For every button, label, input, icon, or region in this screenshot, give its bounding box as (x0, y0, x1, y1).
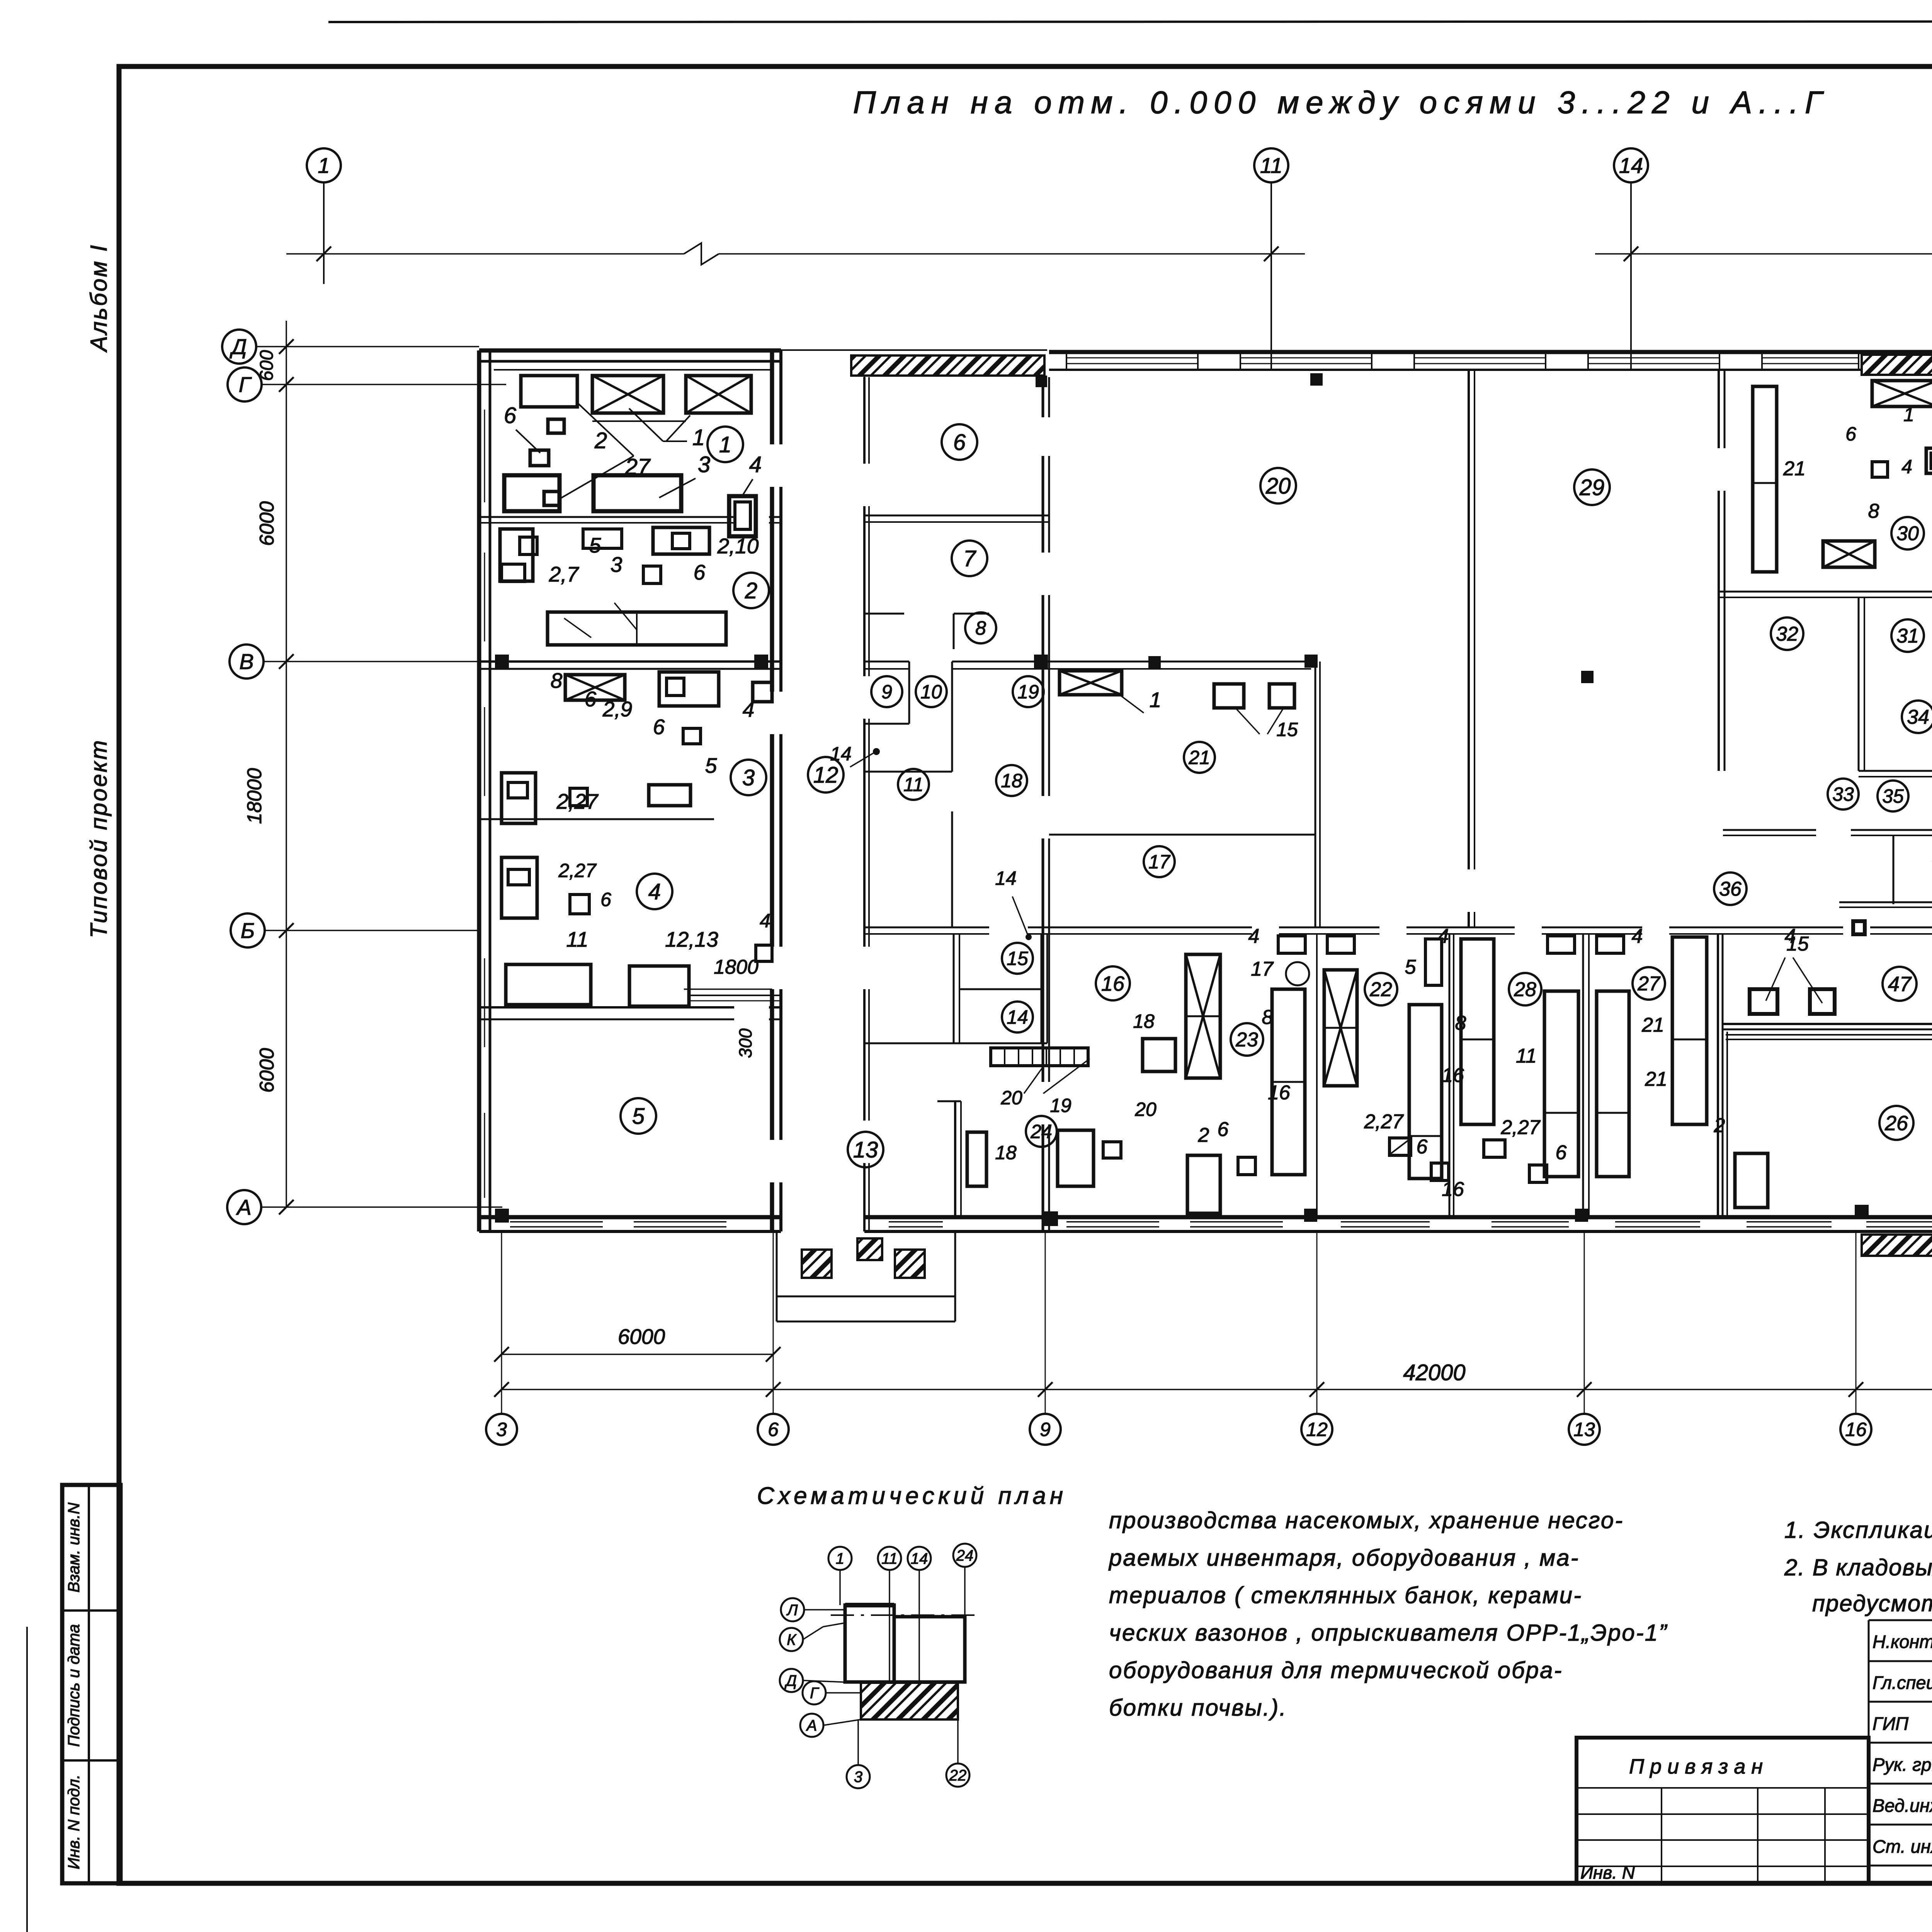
svg-text:6000: 6000 (256, 1048, 278, 1093)
svg-text:3: 3 (854, 1769, 862, 1786)
svg-text:ботки почвы.).: ботки почвы.). (1109, 1695, 1287, 1721)
svg-text:34: 34 (1907, 706, 1929, 728)
svg-text:К: К (787, 1631, 797, 1648)
svg-text:6: 6 (1218, 1118, 1229, 1141)
svg-text:2,10: 2,10 (717, 534, 759, 558)
svg-text:36: 36 (1719, 878, 1742, 900)
svg-text:Б: Б (241, 918, 255, 943)
svg-text:производства насекомых, хран: производства насекомых, хранение несго- (1109, 1507, 1624, 1533)
svg-text:20: 20 (1134, 1099, 1156, 1120)
svg-text:4: 4 (760, 910, 770, 932)
svg-text:Г: Г (239, 372, 252, 397)
svg-text:11: 11 (566, 927, 588, 951)
svg-text:4: 4 (749, 452, 762, 477)
svg-text:Гл.спец.: Гл.спец. (1872, 1672, 1932, 1693)
svg-text:6000: 6000 (256, 501, 278, 546)
svg-text:15: 15 (1276, 719, 1298, 740)
svg-text:12: 12 (1306, 1419, 1328, 1440)
svg-text:1: 1 (692, 425, 705, 450)
svg-text:5: 5 (705, 753, 717, 777)
svg-text:32: 32 (1776, 623, 1798, 645)
svg-text:Инв. N подл.: Инв. N подл. (65, 1774, 83, 1869)
svg-text:15: 15 (1007, 948, 1028, 969)
svg-text:Д: Д (229, 335, 247, 359)
svg-text:П р и в я з а н: П р и в я з а н (1629, 1755, 1763, 1778)
svg-text:5: 5 (1405, 956, 1417, 978)
svg-text:11: 11 (1516, 1045, 1537, 1067)
svg-text:15: 15 (1786, 933, 1809, 955)
svg-text:Д: Д (784, 1672, 797, 1689)
svg-text:2: 2 (594, 428, 607, 453)
svg-text:6000: 6000 (618, 1325, 665, 1349)
svg-text:9: 9 (1040, 1419, 1051, 1440)
svg-text:2. В кладовых инвентаря (по: 2. В кладовых инвентаря (помещения N6;16… (1784, 1554, 1932, 1580)
svg-text:Ст. инж.: Ст. инж. (1872, 1836, 1932, 1857)
svg-text:2,7: 2,7 (549, 562, 580, 586)
svg-text:План на отм. 0.000 между о: План на отм. 0.000 между осями 3...22 и … (853, 85, 1829, 120)
svg-text:8: 8 (551, 668, 563, 692)
svg-text:4: 4 (1632, 925, 1643, 947)
svg-text:6: 6 (1845, 423, 1856, 445)
svg-text:6: 6 (1417, 1136, 1428, 1158)
svg-text:оборудования для термическ: оборудования для термической обра- (1109, 1657, 1563, 1683)
svg-text:23: 23 (1235, 1029, 1258, 1051)
svg-text:5: 5 (632, 1104, 645, 1129)
svg-text:6: 6 (1556, 1141, 1567, 1164)
svg-text:Вед.инж: Вед.инж (1872, 1795, 1932, 1816)
svg-text:Инв. N: Инв. N (1580, 1862, 1635, 1883)
svg-text:1: 1 (318, 153, 330, 178)
svg-text:26: 26 (1884, 1112, 1908, 1135)
svg-text:30: 30 (1896, 522, 1919, 545)
svg-text:20: 20 (1000, 1087, 1022, 1109)
svg-text:ческих вазонов , опрыскивател: ческих вазонов , опрыскивателя ОРР-1„Эро… (1109, 1620, 1668, 1646)
svg-text:21: 21 (1641, 1014, 1664, 1036)
svg-text:2,27: 2,27 (556, 789, 599, 813)
svg-text:14: 14 (830, 743, 852, 765)
svg-text:5: 5 (589, 533, 601, 557)
svg-text:300: 300 (735, 1028, 755, 1058)
svg-text:2,27: 2,27 (1364, 1111, 1404, 1133)
svg-text:16: 16 (1845, 1419, 1867, 1440)
svg-text:11: 11 (1260, 153, 1282, 178)
svg-text:4: 4 (1248, 925, 1260, 947)
svg-text:16: 16 (1442, 1064, 1464, 1087)
svg-text:10: 10 (920, 681, 942, 703)
svg-text:териалов ( стеклянных банок,: териалов ( стеклянных банок, керами- (1109, 1582, 1582, 1608)
svg-text:27: 27 (1637, 973, 1661, 995)
svg-text:ГИП: ГИП (1872, 1713, 1909, 1734)
svg-text:6: 6 (768, 1419, 779, 1440)
svg-text:В: В (239, 650, 253, 674)
svg-text:8: 8 (1262, 1006, 1273, 1029)
svg-text:22: 22 (949, 1767, 967, 1784)
svg-text:12,13: 12,13 (665, 927, 718, 951)
svg-text:1: 1 (719, 432, 731, 457)
svg-text:6: 6 (694, 560, 706, 584)
svg-text:14: 14 (911, 1550, 928, 1567)
svg-text:Н.контр: Н.контр (1872, 1631, 1932, 1652)
svg-text:21: 21 (1783, 457, 1806, 480)
svg-text:18: 18 (1133, 1010, 1155, 1032)
svg-text:Г: Г (810, 1685, 820, 1702)
svg-text:6: 6 (504, 403, 517, 428)
svg-text:Типовой проект: Типовой проект (86, 739, 112, 938)
svg-text:3: 3 (611, 553, 622, 577)
svg-text:17: 17 (1251, 958, 1274, 980)
svg-text:6: 6 (953, 430, 966, 455)
svg-text:14: 14 (995, 867, 1017, 889)
svg-text:1: 1 (836, 1550, 844, 1567)
svg-text:21: 21 (1188, 747, 1210, 769)
svg-text:1: 1 (1903, 404, 1914, 425)
svg-text:24: 24 (1030, 1121, 1052, 1143)
svg-text:Рук. гр.: Рук. гр. (1872, 1754, 1932, 1775)
svg-text:7: 7 (963, 546, 977, 571)
svg-text:Альбом I: Альбом I (86, 243, 112, 352)
svg-text:Схематический план: Схематический план (757, 1483, 1067, 1509)
svg-text:А: А (236, 1195, 251, 1219)
svg-text:11: 11 (881, 1550, 898, 1567)
svg-text:18: 18 (995, 1142, 1017, 1163)
svg-text:6: 6 (653, 715, 665, 739)
svg-text:6: 6 (585, 687, 597, 711)
svg-text:16: 16 (1101, 972, 1125, 995)
svg-text:1: 1 (1150, 688, 1162, 712)
svg-text:Л: Л (786, 1602, 798, 1619)
svg-text:Подпись и дата: Подпись и дата (65, 1624, 83, 1747)
svg-text:28: 28 (1514, 978, 1536, 1001)
svg-text:18: 18 (1001, 770, 1022, 792)
svg-text:8: 8 (975, 617, 986, 639)
svg-text:Взам. инв.N: Взам. инв.N (65, 1502, 83, 1593)
svg-text:2: 2 (745, 578, 757, 603)
svg-text:14: 14 (1619, 153, 1643, 178)
svg-text:1800: 1800 (714, 956, 759, 978)
svg-text:31: 31 (1896, 625, 1919, 647)
svg-text:18000: 18000 (243, 768, 266, 824)
svg-text:33: 33 (1832, 784, 1854, 805)
svg-text:3: 3 (698, 452, 710, 477)
svg-text:600: 600 (257, 350, 277, 381)
svg-text:2: 2 (1714, 1114, 1725, 1137)
svg-text:2,27: 2,27 (1500, 1116, 1541, 1139)
svg-text:8: 8 (1868, 500, 1879, 522)
svg-text:13: 13 (1573, 1419, 1595, 1440)
svg-text:17: 17 (1148, 851, 1171, 873)
svg-text:2,9: 2,9 (602, 697, 632, 721)
svg-text:предусмотрено. согласно прин: предусмотрено. согласно принятой техноло… (1812, 1590, 1932, 1616)
svg-text:2: 2 (1198, 1124, 1209, 1146)
svg-text:3: 3 (742, 765, 755, 790)
svg-text:14: 14 (1007, 1007, 1028, 1028)
svg-text:47: 47 (1888, 973, 1912, 996)
svg-text:А: А (806, 1717, 817, 1734)
svg-text:4: 4 (648, 879, 661, 904)
svg-text:9: 9 (881, 681, 892, 703)
svg-text:35: 35 (1882, 786, 1904, 807)
svg-text:29: 29 (1579, 475, 1605, 500)
svg-text:12: 12 (813, 762, 838, 787)
svg-text:20: 20 (1265, 473, 1291, 498)
svg-text:4: 4 (1901, 456, 1912, 478)
svg-text:3: 3 (496, 1419, 507, 1440)
svg-text:раемых инвентаря, оборудова: раемых инвентаря, оборудования , ма- (1108, 1545, 1580, 1571)
svg-text:1. Экспликацию помещений см: 1. Экспликацию помещений см. на листе ТХ… (1784, 1517, 1932, 1543)
svg-text:22: 22 (1369, 978, 1392, 1001)
svg-text:13: 13 (853, 1137, 878, 1162)
svg-text:2,27: 2,27 (558, 860, 597, 881)
svg-text:19: 19 (1050, 1095, 1071, 1116)
svg-text:19: 19 (1017, 681, 1039, 703)
svg-text:24: 24 (956, 1547, 974, 1564)
svg-text:42000: 42000 (1403, 1360, 1465, 1385)
svg-text:8: 8 (1455, 1012, 1466, 1034)
svg-text:21: 21 (1645, 1068, 1667, 1090)
svg-text:6: 6 (600, 889, 611, 910)
svg-text:11: 11 (903, 774, 923, 796)
svg-text:16: 16 (1268, 1082, 1290, 1104)
